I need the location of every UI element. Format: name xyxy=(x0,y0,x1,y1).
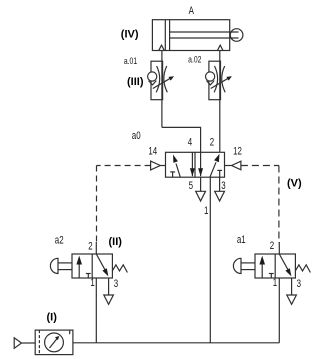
svg-text:(V): (V) xyxy=(287,178,302,190)
svg-text:2: 2 xyxy=(210,136,214,149)
svg-text:a1: a1 xyxy=(237,234,246,247)
svg-text:5: 5 xyxy=(189,180,193,193)
5/2 right box flow path 1-2 xyxy=(210,162,216,177)
cylinder A left port arrow xyxy=(159,45,164,50)
wire cylinder right port through throttle a.02 down to valve port 2 xyxy=(219,51,221,153)
cylinder A rod end circle xyxy=(230,29,243,42)
svg-text:a0: a0 xyxy=(132,130,141,143)
throttle arrow a.01 xyxy=(153,78,171,88)
5/2 pilot 12 triangle xyxy=(225,165,232,167)
svg-text:4: 4 xyxy=(188,136,193,149)
5/2 right box blocked port T xyxy=(217,169,222,171)
pilot line 14 dashed xyxy=(97,165,151,167)
wire valve port 1 down to supply line xyxy=(209,177,211,343)
svg-text:3: 3 xyxy=(221,180,225,193)
svg-text:1: 1 xyxy=(90,277,94,290)
check valve seat a.01 xyxy=(149,81,157,85)
5/2 exhaust port 5 stub and silencer xyxy=(200,177,202,191)
svg-text:a2: a2 xyxy=(55,234,64,247)
throttle arcs a.01 xyxy=(156,66,160,92)
a2 roller actuator xyxy=(50,258,58,273)
svg-text:(I): (I) xyxy=(47,312,58,324)
5/2 left box blocked port T xyxy=(170,171,175,173)
5/2 valve a0 body xyxy=(166,152,225,177)
pilot line 12 dashed xyxy=(241,165,279,167)
a2 right box flow path 2-3 xyxy=(96,254,105,270)
a2 port 3 stub and exhaust xyxy=(108,278,110,295)
5/2 left box flow path 1-4 xyxy=(176,164,180,178)
svg-text:A: A xyxy=(189,5,195,18)
5/2 right box flow path 4-5 xyxy=(200,152,202,176)
flow control valve a.02 body xyxy=(206,61,232,99)
svg-text:2: 2 xyxy=(270,240,274,253)
svg-text:(IV): (IV) xyxy=(121,29,139,41)
cylinder A body xyxy=(152,20,229,51)
supply source triangle xyxy=(14,338,21,349)
svg-text:(III): (III) xyxy=(127,76,144,88)
valve a2 body xyxy=(50,254,127,304)
svg-text:1: 1 xyxy=(204,205,208,218)
supply line from service unit xyxy=(73,342,279,344)
wire valve a2 port 1 down to supply line xyxy=(95,278,97,343)
5/2 pilot 14 triangle xyxy=(160,165,165,167)
svg-text:(II): (II) xyxy=(109,236,123,248)
throttle arrow a.02 xyxy=(211,78,229,88)
5/2 valve divider xyxy=(194,152,196,177)
compressed air service unit (I) xyxy=(35,330,73,355)
svg-text:2: 2 xyxy=(88,241,92,254)
check valve seat a.02 xyxy=(206,81,214,85)
check valve circle a.02 xyxy=(206,72,215,81)
svg-text:3: 3 xyxy=(114,278,118,291)
5/2 exhaust port 3 stub and silencer xyxy=(219,177,221,191)
svg-text:a.02: a.02 xyxy=(188,54,202,64)
valve a1 body xyxy=(233,254,310,304)
wire elbow to valve port 4 xyxy=(162,127,201,152)
throttle arcs a.02 xyxy=(214,66,218,92)
cylinder A rod xyxy=(170,31,239,33)
check valve circle a.01 xyxy=(148,72,157,81)
a2 left box blocked T xyxy=(86,273,91,275)
cylinder A piston xyxy=(164,20,166,51)
flow control valve a.01 body xyxy=(148,61,174,99)
svg-text:14: 14 xyxy=(148,145,157,158)
svg-text:1: 1 xyxy=(273,277,277,290)
wire valve a1 port 1 down to supply line xyxy=(278,278,280,343)
a2 left box flow path 1-2 arrow up xyxy=(78,264,80,279)
wire cylinder left port to throttle a.01 and down to elbow xyxy=(161,51,163,128)
svg-text:12: 12 xyxy=(233,145,242,158)
a2 return spring xyxy=(112,265,127,273)
svg-text:a.01: a.01 xyxy=(124,56,138,66)
svg-text:3: 3 xyxy=(297,278,301,291)
cylinder A right port arrow xyxy=(218,45,223,50)
5/2 left box flow path 2-3 xyxy=(191,152,193,176)
